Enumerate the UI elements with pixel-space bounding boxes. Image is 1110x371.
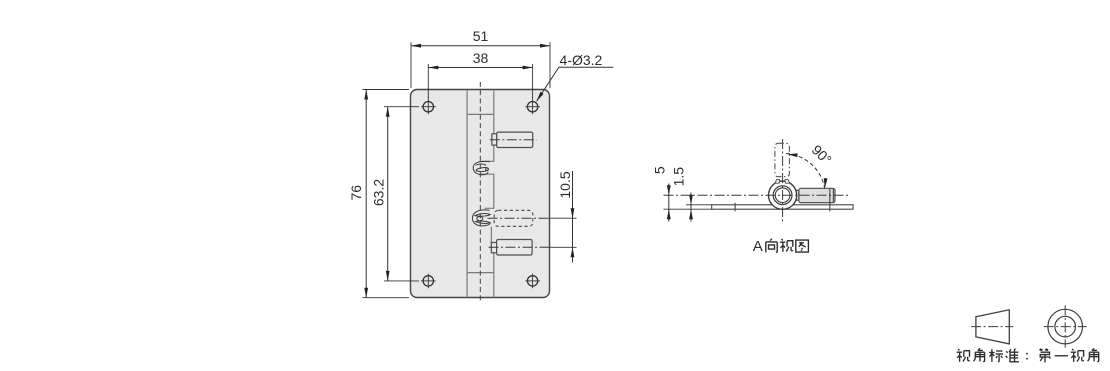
bottom stud center line: [489, 246, 550, 248]
hole bottom-left: [421, 274, 436, 289]
svg-text:76: 76: [348, 185, 364, 201]
svg-text:4-Ø3.2: 4-Ø3.2: [560, 52, 603, 68]
svg-text:10.5: 10.5: [557, 171, 573, 198]
hinge plate outline: [411, 90, 550, 298]
dimension 51: [411, 28, 550, 88]
hole top-right: [525, 97, 540, 114]
bottom stud body: [497, 240, 532, 256]
frustum side view: [976, 310, 1009, 344]
dimension 76: [348, 90, 409, 298]
spring coil upper: [473, 161, 490, 174]
folded leaf (phantom): [775, 143, 790, 176]
top stud body: [497, 132, 533, 147]
hole top-left: [421, 97, 436, 114]
90 degree arc: [786, 154, 825, 189]
svg-text:A: A: [753, 238, 763, 255]
knuckle outer circle: [769, 181, 797, 209]
svg-text:38: 38: [473, 50, 489, 66]
dimension 1.5: [670, 167, 712, 222]
frustum front view inner circle: [1055, 316, 1076, 337]
svg-text:1.5: 1.5: [670, 167, 686, 187]
knuckle inner circle: [775, 188, 790, 203]
hidden stud center line: [488, 217, 550, 219]
caption: shi jiao biao zhun : di yi shi jiao: [957, 348, 1099, 362]
pin neck: [794, 190, 799, 200]
svg-text:63.2: 63.2: [370, 179, 386, 206]
top stud cap: [492, 134, 497, 145]
leaf bar side view: [712, 205, 853, 209]
svg-text:51: 51: [473, 28, 489, 44]
dimension 63.2: [370, 107, 419, 281]
label A xiang shi tu: [753, 238, 809, 255]
knuckle vertical center line: [782, 139, 784, 222]
screw hole edge line through pin and bar: [829, 188, 831, 211]
hinge axis center line: [479, 82, 481, 303]
pin body cylinder: [799, 188, 835, 202]
frustum center line: [971, 326, 1013, 328]
knuckle strip left edge: [466, 90, 468, 298]
knuckle middle circle: [773, 186, 792, 205]
dimension 38: [428, 50, 532, 98]
dimension 5: [652, 166, 713, 221]
svg-text:90°: 90°: [809, 141, 835, 167]
frustum front view outer circle: [1048, 309, 1083, 344]
hole bottom-right: [525, 274, 540, 289]
knuckle division cuts: [467, 113, 494, 115]
folded leaf neck caps: [775, 180, 790, 184]
svg-text:5: 5: [652, 166, 668, 174]
bottom stud cap: [491, 243, 496, 253]
crosshair vertical: [1064, 305, 1066, 347]
crosshair horizontal: [1044, 326, 1087, 328]
spring coil lower: [472, 210, 490, 226]
bar hole tick left: [734, 203, 736, 212]
hidden stud (dashed): [494, 210, 533, 226]
dimension 10.5: [557, 171, 574, 263]
top stud center line: [490, 139, 537, 141]
leader 4-Ø3.2: [535, 52, 613, 102]
knuckle strip right edge segments: [480, 90, 494, 298]
knuckle horizontal center line / ext line for 5: [664, 194, 850, 196]
